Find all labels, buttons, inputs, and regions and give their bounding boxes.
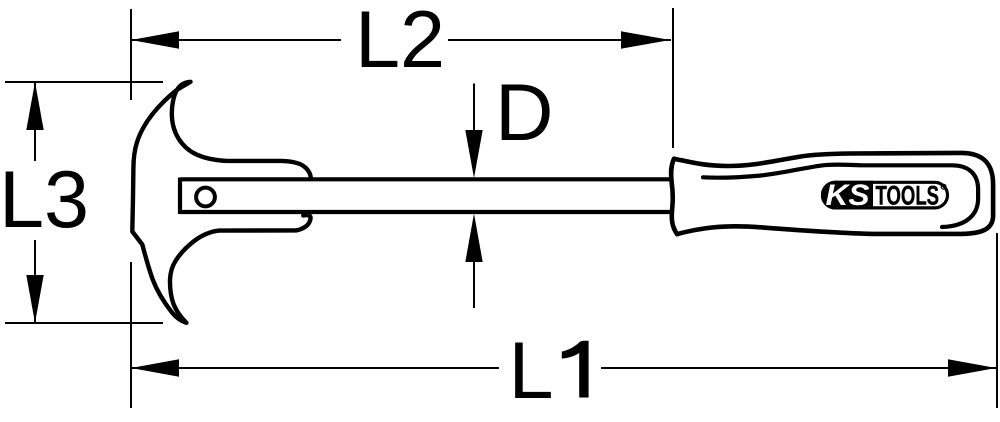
shaft bottom edge (180, 210, 671, 214)
svg-text:L: L (509, 326, 554, 416)
dimension arrow D bottom shaft (473, 262, 475, 308)
extension line bottom-left (for L1) (130, 262, 132, 408)
extension line left of head (top, for L2) (130, 9, 132, 100)
extension line bottom for L3 (5, 322, 163, 324)
arrowhead L1 left (131, 359, 179, 376)
arrowhead L2 right (621, 31, 670, 48)
dimension line L2 right segment (448, 39, 671, 41)
shaft top edge (180, 177, 671, 181)
blade pin hole (196, 188, 215, 207)
arrowhead L1 right (948, 359, 996, 376)
dimension line L1 left segment (131, 367, 499, 369)
extension line bottom-right (for L1) (996, 233, 998, 408)
KS TOOLS logo stadium (823, 182, 948, 208)
arrowhead D top (465, 130, 482, 178)
arrowhead D bottom (465, 214, 482, 263)
svg-text:L2: L2 (355, 0, 445, 85)
arrowhead L3 up (26, 82, 43, 130)
arrowhead L2 left (131, 31, 179, 48)
scraper head outline (132, 82, 310, 323)
blade left end edge (178, 178, 182, 215)
extension line top for L3 (5, 81, 163, 83)
extension line right (for L2, at handle collar) (672, 8, 674, 148)
svg-text:TOOLS: TOOLS (876, 180, 940, 210)
handle inner contour line (703, 165, 978, 227)
dimension line L1 right segment (601, 367, 996, 369)
handle outline (671, 153, 993, 234)
arrowhead L3 down (26, 275, 43, 323)
dimension arrow D top shaft (473, 84, 475, 131)
dimension line L3 upper segment (34, 82, 36, 161)
svg-text:KS: KS (826, 179, 870, 212)
label L1 digit 1 (arial style, no foot) (562, 341, 589, 398)
dimension line L3 lower segment (34, 240, 36, 323)
registered trademark mark (941, 184, 946, 189)
dimension line L2 left segment (131, 39, 341, 41)
svg-text:L3: L3 (0, 155, 89, 245)
KS TOOLS logo black left field (821, 181, 873, 210)
svg-text:D: D (495, 68, 554, 158)
